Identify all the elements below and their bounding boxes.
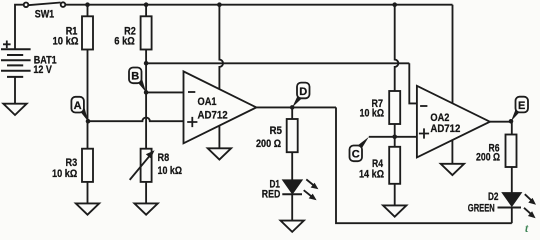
wire battery plus to switch	[15, 5, 24, 50]
wire OA1 output to node D to right bend	[256, 106, 336, 108]
wire R2 bottom through node B down to R8	[145, 50, 147, 149]
wire node C horizontal to junction to OA2 plus	[369, 136, 417, 138]
ground R4	[383, 205, 406, 216]
svg-text:200 Ω: 200 Ω	[476, 152, 500, 164]
wire node A to OA1 plus input (with hop)	[88, 117, 184, 121]
battery plus sign	[3, 41, 11, 49]
svg-text:E: E	[518, 100, 525, 112]
svg-text:AD712: AD712	[430, 123, 460, 135]
node D callout	[292, 83, 309, 108]
resistor R7	[389, 91, 400, 124]
svg-text:A: A	[74, 100, 82, 112]
svg-text:10 kΩ: 10 kΩ	[53, 35, 79, 47]
svg-text:200 Ω: 200 Ω	[256, 138, 281, 150]
svg-text:C: C	[352, 149, 360, 161]
node dot rail R2	[144, 2, 149, 7]
op-amp OA1 minus sign	[188, 91, 195, 93]
wire OA2 V+ supply drop	[452, 5, 454, 104]
wire top supply rail	[65, 4, 452, 6]
switch SW1 lever	[28, 3, 61, 6]
node C callout	[350, 137, 369, 161]
ground R8	[134, 203, 157, 214]
node B callout	[129, 68, 146, 93]
wire R7 bottom to junction	[394, 124, 396, 137]
resistor R8 body	[141, 149, 152, 182]
node dot A	[86, 119, 91, 124]
resistor R3	[82, 149, 93, 182]
switch SW1 terminal circle right	[61, 2, 66, 7]
node dot C junction	[392, 135, 397, 140]
wire R6 bottom to D2	[511, 167, 513, 193]
wire battery minus to ground	[14, 77, 16, 104]
wire R1 top	[87, 5, 89, 17]
svg-text:B: B	[131, 71, 139, 83]
node dot rail OA1 V+	[217, 2, 222, 7]
svg-text:R5: R5	[270, 125, 283, 137]
resistor R5	[287, 119, 298, 152]
ground battery	[3, 104, 26, 115]
svg-text:10 kΩ: 10 kΩ	[52, 168, 77, 180]
op-amp OA2 plus sign	[419, 128, 429, 138]
wire R8 bottom	[145, 182, 147, 204]
wire OA2 output to node E	[490, 121, 512, 123]
wire R4 top	[394, 137, 396, 147]
node dot E	[509, 119, 514, 124]
wire OA1 minus input	[146, 91, 183, 93]
op-amp OA2	[417, 86, 490, 158]
wire OA1 V+ supply (with hop)	[219, 5, 223, 89]
diode D2 cathode bar	[498, 207, 522, 209]
node A callout	[71, 97, 88, 121]
wire R3 bottom	[87, 182, 89, 204]
wire D2 cathode down to bottom run	[511, 208, 513, 224]
diode D1 LED triangle	[283, 180, 301, 193]
svg-text:OA1: OA1	[198, 96, 217, 108]
ground R3	[76, 203, 99, 214]
resistor R2	[141, 16, 152, 49]
wire R2 top	[145, 5, 147, 17]
wire R7 top supply (with hop)	[395, 5, 399, 91]
wire OA2 V- to ground	[451, 140, 453, 164]
node dot rail R7	[392, 2, 397, 7]
svg-text:OA2: OA2	[430, 112, 449, 124]
node dot D	[290, 105, 295, 110]
node dot B	[144, 90, 149, 95]
diode D2 LED triangle	[503, 193, 521, 205]
diode D1 cathode bar	[282, 193, 302, 195]
op-amp OA2 minus sign	[420, 105, 427, 107]
ground OA1	[208, 148, 231, 159]
wire node E down to R6	[511, 122, 513, 135]
svg-text:10 kΩ: 10 kΩ	[360, 108, 385, 120]
svg-text:SW1: SW1	[35, 9, 55, 21]
svg-text:AD712: AD712	[198, 110, 228, 122]
resistor R8 variable arrow	[130, 150, 155, 180]
ground OA2	[441, 164, 464, 175]
wire OA2 minus input drop	[409, 63, 417, 103]
wire node D bend down to bottom run	[336, 107, 512, 223]
node E callout	[511, 97, 528, 122]
switch SW1 terminal circle left	[24, 3, 29, 8]
ground D1	[281, 221, 304, 232]
wire OA1 V- to ground	[218, 126, 220, 149]
op-amp OA1	[184, 71, 257, 143]
wire node B junction to OA2 minus (horizontal run)	[146, 62, 409, 64]
op-amp OA1 plus sign	[187, 117, 197, 127]
node dot rail R1	[85, 2, 90, 7]
battery BAT1	[1, 49, 31, 77]
D2 light arrow upper	[525, 194, 536, 205]
svg-text:6 kΩ: 6 kΩ	[114, 35, 135, 47]
wire R5 top	[291, 107, 293, 119]
svg-text:14 kΩ: 14 kΩ	[359, 169, 384, 181]
svg-text:D: D	[299, 86, 307, 98]
D1 light arrow lower	[304, 190, 317, 200]
wire R4 bottom	[394, 184, 396, 206]
svg-text:t: t	[525, 223, 529, 234]
svg-text:10 kΩ: 10 kΩ	[158, 165, 183, 177]
node dot R2 bottom feedback	[144, 61, 149, 66]
D2 light arrow lower	[524, 208, 536, 218]
svg-text:RED: RED	[262, 189, 281, 201]
D1 light arrow upper	[306, 179, 318, 189]
svg-text:R8: R8	[158, 152, 170, 164]
resistor R4	[389, 147, 400, 184]
svg-text:D2: D2	[488, 191, 499, 203]
wire D1 cathode to ground	[291, 194, 293, 220]
resistor R1	[82, 16, 93, 49]
wire R1 bottom to node A to R3	[87, 50, 89, 149]
svg-text:12 V: 12 V	[33, 64, 52, 76]
svg-text:GREEN: GREEN	[468, 202, 495, 214]
wire R5 bottom to D1	[291, 152, 293, 180]
resistor R6	[506, 135, 517, 168]
